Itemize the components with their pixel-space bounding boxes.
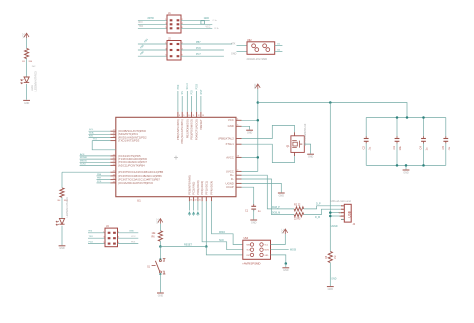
- svg-text:MOSI: MOSI: [290, 249, 296, 252]
- svg-text:#DTR: #DTR: [148, 17, 155, 20]
- svg-text:DGB_M: DGB_M: [272, 213, 280, 215]
- svg-text:GND: GND: [339, 216, 344, 218]
- svg-text:LED5MM-KIT-RED: LED5MM-KIT-RED: [66, 197, 69, 217]
- IC1 XTAL1 wire loop: [236, 144, 295, 162]
- svg-text:VCC: VCC: [254, 84, 257, 89]
- svg-text:21NHD-2X2-SMD: 21NHD-2X2-SMD: [247, 57, 268, 61]
- power supply VCC symbol (top-left LED chain): [23, 33, 29, 38]
- svg-text:UCAP: UCAP: [226, 185, 234, 189]
- svg-text:.1u: .1u: [367, 146, 371, 150]
- svg-text:>AVRISPSMD: >AVRISPSMD: [242, 261, 261, 265]
- svg-text:GND: GND: [403, 171, 409, 174]
- svg-text:GND: GND: [331, 279, 336, 281]
- svg-text:zx80-usb-micro-smd: zx80-usb-micro-smd: [330, 200, 352, 203]
- wire USB shield stub: [341, 218, 344, 220]
- IC U1 ATMEGA32U4 body: [116, 117, 236, 202]
- wire J3 pin1: [88, 231, 105, 233]
- svg-text:PB1(SCLK/PCINT1): PB1(SCLK/PCINT1): [180, 119, 184, 143]
- svg-text:GND: GND: [231, 53, 237, 56]
- jumper block U$2 21NHD-2X2-SMD: [247, 39, 275, 61]
- svg-text:5: 5: [165, 27, 166, 29]
- wire C1 to ground: [253, 209, 255, 219]
- wire J1 pin3 net RXI: [138, 22, 167, 24]
- svg-text:U$3: U$3: [244, 237, 249, 240]
- ground (power LED): [23, 100, 30, 104]
- svg-text:1M: 1M: [334, 256, 337, 259]
- wire J3 pin3: [88, 236, 105, 238]
- wire J2 pin5 net PB6: [138, 50, 167, 56]
- wire J3 pin4: [118, 236, 139, 238]
- svg-text:2: 2: [237, 170, 238, 172]
- capacitor C3 10u: [392, 118, 402, 166]
- svg-text:MISO0: MISO0: [80, 160, 88, 162]
- svg-text:2: 2: [163, 271, 164, 273]
- svg-text:.1u: .1u: [447, 146, 451, 150]
- svg-text:22 R3: 22 R3: [294, 218, 301, 221]
- wire J2 pin6 net PC7: [181, 53, 224, 56]
- IC1 bottom pin PC2 stub: [192, 197, 196, 216]
- capacitor C5 .1u: [441, 118, 451, 166]
- wire RESET net horizontal: [160, 243, 206, 246]
- wire MISO net from IC1 to ISP: [212, 197, 243, 245]
- svg-text:12: 12: [198, 115, 200, 117]
- IC1 left pin PD3 wire with jog: [92, 139, 116, 150]
- wire J3 pin2 net GND: [118, 231, 139, 233]
- svg-text:24: 24: [113, 161, 115, 163]
- wire J1 pin1 net #DTR: [138, 17, 167, 20]
- ground (ISP): [282, 268, 289, 272]
- svg-text:C5: C5: [441, 146, 445, 150]
- svg-text:5: 5: [103, 242, 104, 244]
- svg-text:PDI: PDI: [190, 90, 193, 94]
- svg-text:10: 10: [188, 115, 190, 117]
- svg-text:UGND: UGND: [331, 226, 338, 228]
- wire J1 pin2 net GND: [181, 17, 217, 22]
- svg-text:D+: D+: [341, 206, 343, 208]
- svg-text:C.1u: C.1u: [213, 20, 217, 22]
- svg-text:GND: GND: [228, 124, 234, 128]
- wire J2 pin4 net PC6: [181, 47, 224, 50]
- wire bottom rail to ground: [405, 165, 407, 169]
- capacitor C4 1u: [419, 118, 429, 166]
- svg-text:31: 31: [199, 200, 201, 202]
- svg-text:RST: RST: [200, 89, 203, 94]
- wire USB GND pin: [330, 216, 341, 228]
- svg-text:18: 18: [113, 133, 115, 135]
- svg-text:1: 1: [103, 231, 104, 233]
- svg-text:D_P: D_P: [316, 202, 321, 205]
- svg-text:3: 3: [103, 237, 104, 239]
- IC1 UGND pin wire: [236, 183, 281, 192]
- svg-text:C4: C4: [419, 146, 423, 150]
- wire U$2 VCC input: [231, 42, 247, 45]
- svg-text:CSTCE16M0V53-R0: CSTCE16M0V53-R0: [304, 123, 307, 146]
- svg-text:D-: D-: [231, 177, 234, 181]
- svg-text:SS: SS: [181, 91, 184, 95]
- capacitor C2 .1u: [361, 118, 371, 166]
- wire LED2 to ground: [61, 226, 63, 245]
- wire J2 pin3 net PB5: [138, 44, 167, 50]
- junction C4 bottom: [422, 164, 425, 167]
- svg-text:#TX: #TX: [231, 42, 236, 45]
- svg-text:GND: GND: [328, 288, 334, 291]
- svg-text:#RESET: #RESET: [199, 119, 203, 130]
- svg-text:XTAL1: XTAL1: [225, 142, 234, 146]
- svg-text:PF1(ADC1): PF1(ADC1): [204, 181, 208, 195]
- ground (LED2): [59, 246, 66, 250]
- IC1 UCAP pin wire to C1: [236, 187, 254, 206]
- svg-text:VCC: VCC: [281, 229, 284, 234]
- svg-text:PC7: PC7: [196, 53, 201, 56]
- svg-text:9: 9: [183, 115, 184, 117]
- svg-text:MISO: MISO: [247, 244, 252, 246]
- svg-text:(TXD1/INT3)PD3: (TXD1/INT3)PD3: [118, 139, 140, 143]
- svg-text:29: 29: [113, 178, 115, 180]
- connector J1 serial header 2x3: [165, 11, 182, 33]
- svg-text:24: 24: [113, 164, 115, 166]
- svg-text:33: 33: [190, 200, 192, 202]
- svg-text:SCK: SCK: [219, 239, 224, 242]
- IC1 top pins PB0-RESET wires with net labels: [177, 83, 204, 118]
- svg-text:PE6(INT6/AIN0): PE6(INT6/AIN0): [187, 175, 191, 195]
- svg-text:ACK: ACK: [80, 153, 85, 156]
- svg-text:GND: GND: [247, 132, 253, 135]
- IC1 XTAL2 wire loop: [236, 125, 295, 138]
- IC1 GND pin wire: [236, 125, 250, 130]
- ground (capacitor bank): [403, 170, 410, 174]
- svg-text:VCC: VCC: [206, 26, 211, 28]
- svg-text:5: 5: [237, 125, 238, 127]
- resonator Q1 CSTCE16M0V53-R0: [286, 123, 307, 156]
- svg-text:VCC: VCC: [156, 218, 159, 223]
- svg-text:RESET: RESET: [184, 243, 193, 246]
- wire D_M to USB connector: [304, 209, 341, 219]
- wire R4 to LED2: [62, 197, 69, 218]
- svg-text:13: 13: [202, 115, 204, 117]
- svg-text:PB3(PDO/MISO): PB3(PDO/MISO): [190, 119, 194, 139]
- svg-text:22: 22: [113, 158, 115, 160]
- svg-text:PF4(ADC4): PF4(ADC4): [210, 181, 214, 195]
- wire J2 pin2 net PB7: [181, 41, 232, 44]
- wire capacitor bank top rail: [366, 117, 446, 119]
- resistor R3 22: [294, 213, 304, 221]
- LED LED1 power indicator: [21, 71, 38, 91]
- svg-text:11: 11: [193, 115, 195, 117]
- IC1 AVCC pin wire: [236, 156, 258, 158]
- ground (IC1 GND pin): [246, 130, 253, 134]
- junction reset pull-up: [159, 245, 162, 248]
- IC1 left pins PD5-PB4 wires: [80, 153, 116, 166]
- resistor R1 330: [22, 48, 36, 68]
- svg-text:1u: 1u: [425, 147, 429, 150]
- wire VCC to R6: [159, 224, 161, 231]
- svg-text:29: 29: [113, 181, 115, 183]
- svg-text:GND: GND: [279, 194, 285, 197]
- svg-text:GND: GND: [204, 17, 210, 20]
- svg-text:PC6: PC6: [196, 47, 201, 50]
- IC1 UVCC pin wire: [236, 170, 258, 172]
- IC1 D+ pin wire to R2: [236, 175, 294, 209]
- junction top rail feed: [406, 116, 409, 119]
- ground (reset switch): [157, 293, 164, 297]
- wire VCC to R1: [26, 38, 28, 48]
- junction AVCC on rail: [257, 156, 260, 159]
- svg-text:RXI: RXI: [139, 22, 143, 24]
- solder jumper SJ1 on J1 pin4: [181, 21, 212, 25]
- svg-text:D_M: D_M: [315, 216, 320, 219]
- svg-text:PB2(PDI/MOSI): PB2(PDI/MOSI): [185, 119, 189, 138]
- junction VCC pin on rail: [257, 119, 260, 122]
- svg-text:28: 28: [113, 174, 115, 176]
- wire J3 pin5: [88, 241, 105, 243]
- wire ISP pin4 net MOSI: [271, 249, 297, 252]
- junction C4 top: [422, 116, 425, 119]
- svg-text:AVCC: AVCC: [226, 155, 234, 159]
- wire S1 to ground: [160, 273, 162, 292]
- LED LED2 status: [56, 218, 64, 225]
- svg-text:TXO: TXO: [89, 236, 94, 238]
- svg-text:DGB_P: DGB_P: [272, 207, 280, 209]
- svg-text:PD4(ICP1/ADC8): PD4(ICP1/ADC8): [195, 119, 199, 140]
- junction VBUS: [329, 211, 332, 214]
- svg-text:C2: C2: [361, 146, 365, 150]
- IC1 left pin PB5 wire to LED2 chain: [62, 171, 116, 173]
- wire Q1 ground pin: [304, 144, 310, 154]
- IC1 VCC pin wire: [236, 119, 258, 121]
- svg-text:RXI: RXI: [89, 231, 93, 233]
- svg-text:PF0(ADC0): PF0(ADC0): [200, 181, 204, 195]
- resistor R5 1M shield to ground: [325, 251, 337, 262]
- svg-text:RST: RST: [247, 255, 250, 257]
- svg-text:GND: GND: [158, 294, 164, 297]
- svg-text:3: 3: [165, 49, 166, 51]
- svg-text:10u: 10u: [398, 146, 402, 151]
- IC1 D- pin wire to R3: [236, 179, 294, 215]
- svg-text:U1: U1: [137, 199, 141, 203]
- svg-text:(PB6)XTAL2: (PB6)XTAL2: [218, 136, 234, 140]
- IC1 bottom pin PD4 stub: [197, 197, 201, 216]
- wire R5 to ground: [330, 263, 336, 286]
- wire VCC top rail to capacitor bank: [258, 103, 407, 118]
- switch S1 reset button: [147, 259, 165, 274]
- svg-text:17: 17: [113, 130, 115, 132]
- svg-text:R2 22: R2 22: [294, 204, 301, 207]
- svg-text:3: 3: [165, 23, 166, 25]
- svg-text:GND: GND: [251, 221, 257, 224]
- svg-text:(OC3A/#0C4A/PCINT8)PC6: (OC3A/#0C4A/PCINT8)PC6: [118, 181, 153, 185]
- wire SCK net from IC1 to ISP: [202, 197, 243, 250]
- svg-text:PB0: PB0: [177, 84, 180, 89]
- svg-text:24: 24: [237, 156, 239, 158]
- svg-text:SCK0: SCK0: [80, 163, 86, 165]
- wire RESET net vertical from IC1: [205, 197, 207, 247]
- junction RESET net: [205, 245, 208, 248]
- svg-text:PB7: PB7: [196, 41, 201, 44]
- svg-text:TXO: TXO: [139, 26, 144, 28]
- capacitor C1 1u: [245, 204, 261, 213]
- svg-text:VCC: VCC: [131, 236, 136, 238]
- power VCC symbol (main rail): [254, 84, 260, 89]
- svg-text:5: 5: [165, 55, 166, 57]
- wire RESET net to ISP pin5: [206, 247, 243, 255]
- svg-text:1: 1: [165, 19, 166, 21]
- svg-text:PB0(SS/PCINT0): PB0(SS/PCINT0): [176, 119, 180, 140]
- wire VBUS to USB connector: [330, 212, 341, 214]
- svg-text:C3: C3: [392, 146, 396, 150]
- wire VCC vertical rail: [257, 89, 259, 171]
- wire to ISP ground symbol: [285, 264, 287, 268]
- svg-text:27: 27: [113, 171, 115, 173]
- svg-text:32: 32: [195, 200, 197, 202]
- wire D_P to USB connector: [304, 202, 341, 209]
- resistor R2 22: [294, 204, 304, 211]
- svg-text:GND: GND: [24, 102, 30, 105]
- junction USB GND: [329, 215, 332, 218]
- svg-text:(ADC11/PCINT4)PB4: (ADC11/PCINT4)PB4: [118, 163, 145, 167]
- connector U$3 AVRISP-6 header: [242, 237, 271, 265]
- IC1 left pins PD0-PD2 wires: [89, 129, 116, 138]
- connector J3 header 2x3: [103, 224, 119, 247]
- svg-text:PD4(ADC8): PD4(ADC8): [196, 180, 200, 194]
- svg-text:GND: GND: [129, 231, 134, 233]
- junction C3 top: [396, 116, 399, 119]
- svg-text:PDO: PDO: [196, 84, 199, 89]
- svg-text:4: 4: [237, 119, 238, 121]
- svg-text:VBUS: VBUS: [338, 212, 344, 214]
- resistor R6 10k: [152, 231, 163, 241]
- IC1 bottom pin PE6 stub: [188, 197, 192, 216]
- svg-text:1: 1: [165, 43, 166, 45]
- connector J4 USB micro: [330, 200, 356, 226]
- svg-text:MOSI0: MOSI0: [80, 157, 88, 159]
- wire R6 to RESET junction: [159, 241, 161, 246]
- svg-text:GND: GND: [308, 156, 314, 159]
- wire VBUS rail vertical: [329, 103, 331, 252]
- junction ground tap: [405, 164, 408, 167]
- svg-text:PC2(AIN2): PC2(AIN2): [192, 182, 196, 195]
- wire ISP pin2 to VCC: [271, 234, 286, 245]
- svg-text:1: 1: [163, 261, 164, 263]
- svg-text:MISO: MISO: [219, 231, 225, 234]
- power VCC symbol (reset pull-up): [156, 218, 162, 223]
- wire U$2 output stub 1: [275, 43, 283, 45]
- svg-text:22: 22: [113, 154, 115, 156]
- junction C3 bottom: [396, 164, 399, 167]
- wire ISP pin6 to ground: [271, 255, 286, 264]
- ground (shield): [327, 287, 334, 291]
- wire R1 to LED1: [26, 59, 28, 77]
- ground (UGND): [278, 193, 285, 197]
- junction VBUS feed on top rail: [329, 101, 332, 104]
- svg-text:VCC: VCC: [23, 33, 26, 38]
- svg-text:SCLK: SCLK: [186, 83, 189, 90]
- ground (C1): [250, 220, 257, 224]
- ground (resonator): [307, 154, 314, 158]
- svg-text:LED5MM-KIT-RED: LED5MM-KIT-RED: [35, 71, 38, 91]
- svg-text:VCC: VCC: [228, 118, 234, 122]
- IC1 left pins PB6-PC6 wires: [97, 174, 116, 183]
- svg-text:MOSI: MOSI: [265, 250, 270, 252]
- wire U$2 GND input: [231, 52, 247, 56]
- svg-text:USB: USB: [348, 210, 352, 218]
- wire PB5 to R4: [61, 172, 63, 188]
- wire J1 pin6 net VCC: [181, 26, 219, 30]
- svg-text:GND: GND: [59, 247, 65, 250]
- resistor R4 330: [58, 188, 69, 202]
- wire U$2 output stub 2: [275, 49, 283, 51]
- junction ISP ground: [285, 262, 288, 265]
- svg-text:SDA: SDA: [89, 131, 94, 134]
- power VCC symbol (ISP): [281, 229, 287, 234]
- svg-text:U$2: U$2: [247, 39, 252, 42]
- svg-text:R.1k: R.1k: [215, 28, 219, 30]
- svg-text:8: 8: [179, 115, 180, 117]
- wire capacitor bank bottom rail: [366, 164, 446, 166]
- wire J3 pin6: [118, 241, 139, 243]
- wire LED1 to ground: [26, 84, 28, 100]
- junction VCC rail / top rail: [257, 101, 260, 104]
- svg-text:19: 19: [113, 136, 115, 138]
- wire J1 pin5 net TXO: [138, 26, 167, 28]
- svg-text:GND: GND: [283, 269, 289, 272]
- connector J2 header 2x3: [165, 36, 182, 60]
- wire junction to switch S1: [160, 247, 162, 261]
- wire J2 pin1 net PB4: [138, 38, 167, 44]
